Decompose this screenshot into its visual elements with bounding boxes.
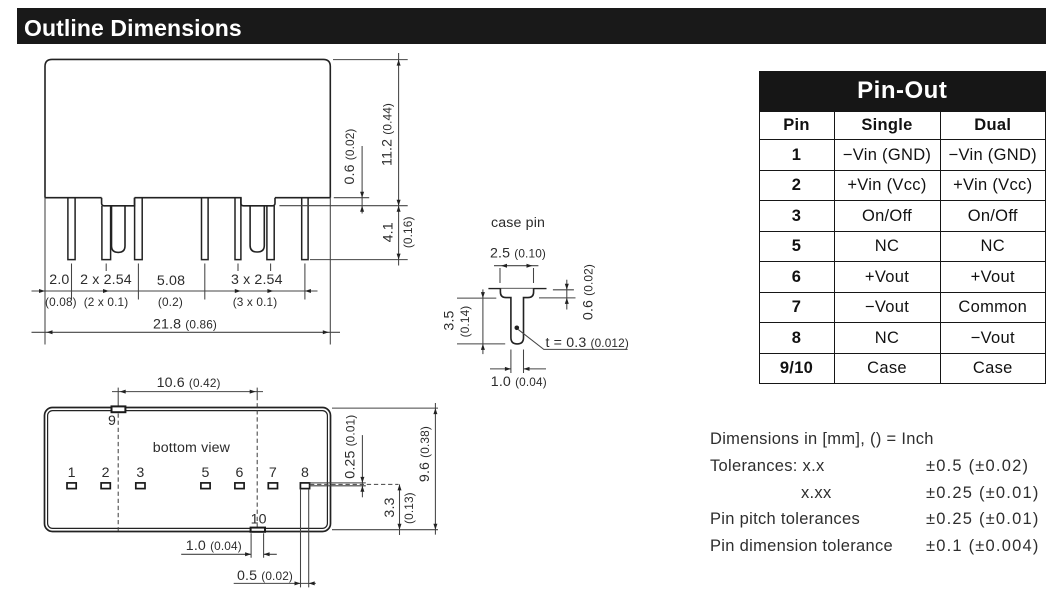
pin 8 center line (304, 264, 306, 300)
pin 5 pad (201, 483, 210, 489)
svg-text:11.2 (0.44): 11.2 (0.44) (380, 103, 396, 166)
arrows for 0.6 (360, 192, 364, 198)
pin 5 center line (204, 264, 206, 300)
svg-text:(0.2): (0.2) (158, 295, 183, 309)
pin center ticks below side view (72, 264, 305, 300)
0.6 dimension line (361, 146, 363, 214)
svg-text:t = 0.3 (0.012): t = 0.3 (0.012) (546, 335, 629, 351)
pin 8 side extension double lines (309, 483, 366, 486)
right side extension lines (279, 53, 407, 266)
pin 9 center line (dashed) (117, 388, 119, 407)
pin 8 pad (300, 483, 309, 489)
pin tip extension (310, 259, 408, 261)
svg-text:0.5 (0.02): 0.5 (0.02) (237, 568, 293, 584)
svg-text:3: 3 (136, 465, 144, 481)
0.6 standoff dimension line (566, 280, 568, 310)
svg-text:2: 2 (102, 465, 110, 481)
tolerance text block (710, 430, 934, 449)
pin 10 pad (251, 528, 265, 532)
1.0 extension lines (511, 350, 524, 374)
pin 8 (side view lead) (302, 198, 308, 260)
pin 10 center line (dashed) (256, 388, 258, 396)
0.5 dimension line (234, 582, 316, 584)
svg-text:5: 5 (201, 465, 209, 481)
pin 3 pad (136, 483, 145, 489)
leader line for t = 0.3 (518, 330, 627, 350)
svg-text:3.3: 3.3 (382, 497, 398, 517)
svg-text:2.5 (0.10): 2.5 (0.10) (490, 246, 546, 262)
pin 3 center line (137, 264, 139, 300)
Pin-Out table (759, 71, 1047, 384)
pitch labels mm (45, 272, 283, 309)
svg-text:2.0: 2.0 (49, 272, 69, 288)
svg-text:6: 6 (235, 465, 243, 481)
svg-text:21.8 (0.86): 21.8 (0.86) (153, 317, 217, 333)
svg-text:9.6 (0.38): 9.6 (0.38) (417, 426, 433, 482)
pin 5 (side view lead) (202, 198, 209, 260)
svg-text:5.08: 5.08 (157, 273, 185, 289)
body top extension (333, 59, 408, 61)
left body extension line (44, 198, 46, 345)
pin 8 dashed center extension (310, 483, 399, 485)
svg-text:case pin: case pin (491, 215, 545, 231)
svg-text:2 x 2.54: 2 x 2.54 (80, 272, 132, 288)
pin 7 (side view lead) (267, 206, 274, 260)
package body outline (side view) (45, 59, 330, 205)
0.5 extension lines (pin 8) (301, 489, 309, 587)
pin 2 center dash (105, 264, 107, 272)
svg-text:4.1: 4.1 (381, 222, 397, 242)
svg-text:(3 x 0.1): (3 x 0.1) (233, 295, 278, 309)
svg-text:10: 10 (251, 511, 267, 527)
pin 6 (side view lead) (235, 198, 241, 260)
svg-text:1: 1 (68, 465, 76, 481)
svg-text:3 x 2.54: 3 x 2.54 (231, 272, 283, 288)
svg-text:0.25 (0.01): 0.25 (0.01) (343, 415, 359, 479)
seating surface line (488, 288, 546, 290)
svg-text:(2 x 0.1): (2 x 0.1) (84, 295, 129, 309)
svg-text:bottom view: bottom view (153, 440, 231, 456)
title bar (17, 8, 1046, 44)
1.0 dimension line (181, 553, 277, 555)
rotated dimension labels right of side view (342, 103, 415, 248)
svg-text:0.6 (0.02): 0.6 (0.02) (342, 129, 358, 185)
pin 6 pad (235, 483, 244, 489)
2.5 extension lines (500, 268, 534, 283)
right body extension line (329, 198, 331, 345)
pin 6 center dash (237, 264, 239, 272)
pin 1 center line (71, 264, 73, 300)
2.5 dimension line (494, 265, 538, 267)
pin 2 (side view lead) (102, 206, 111, 260)
0.6 extension lines (539, 290, 576, 298)
bottom view pads and numbers (67, 483, 310, 489)
thickness dot (515, 326, 520, 331)
bottom view inner case line (48, 411, 328, 529)
1.0 extension lines (pin 10) (251, 533, 264, 558)
svg-text:10.6 (0.42): 10.6 (0.42) (157, 375, 221, 391)
body top extension right (332, 407, 438, 409)
pin 1 (side view lead) (68, 198, 75, 260)
pin pitch chain dimension line (32, 290, 318, 292)
svg-text:1.0 (0.04): 1.0 (0.04) (491, 374, 547, 390)
case pin profile (500, 289, 533, 344)
pin 3 (side view lead) (135, 198, 143, 260)
3.5 extension lines (457, 298, 505, 344)
3.5 dimension line (482, 289, 484, 354)
3.3 dimension line (399, 484, 401, 535)
svg-text:(0.14): (0.14) (458, 306, 472, 338)
svg-text:0.6 (0.02): 0.6 (0.02) (581, 264, 597, 320)
pin 1 pad (67, 483, 76, 489)
pin 2 pad (101, 483, 110, 489)
pin 9 pad (112, 406, 126, 412)
bottom view outer case outline (45, 408, 331, 532)
arrows for 11.2 and 4.1 (397, 60, 401, 66)
svg-text:9: 9 (108, 413, 116, 429)
shoulder extension (279, 205, 407, 207)
10.6 dimension line (112, 391, 263, 393)
1.0 dimension line (490, 368, 546, 370)
svg-text:(0.13): (0.13) (402, 492, 416, 524)
svg-text:8: 8 (301, 465, 309, 481)
case pin 10 (side view, U-shaped) (250, 206, 264, 252)
svg-text:(0.16): (0.16) (401, 216, 415, 248)
overall width dimension line 21.8 (32, 331, 341, 333)
pin 7 center dash (270, 264, 272, 272)
9.6 dimension line (434, 403, 436, 535)
vertical dimension line 11.2 / 4.1 (398, 53, 400, 266)
svg-text:(0.08): (0.08) (45, 295, 77, 309)
svg-text:3.5: 3.5 (442, 310, 458, 330)
body bottom extension (334, 197, 369, 199)
0.25 dimension line (361, 435, 363, 497)
chain dimension arrows (39, 289, 45, 293)
body bottom extension right (332, 529, 438, 531)
case pin 9 (side view, U-shaped) (112, 206, 126, 253)
svg-text:7: 7 (269, 465, 277, 481)
svg-text:1.0 (0.04): 1.0 (0.04) (186, 538, 242, 554)
pin 7 pad (268, 483, 277, 489)
